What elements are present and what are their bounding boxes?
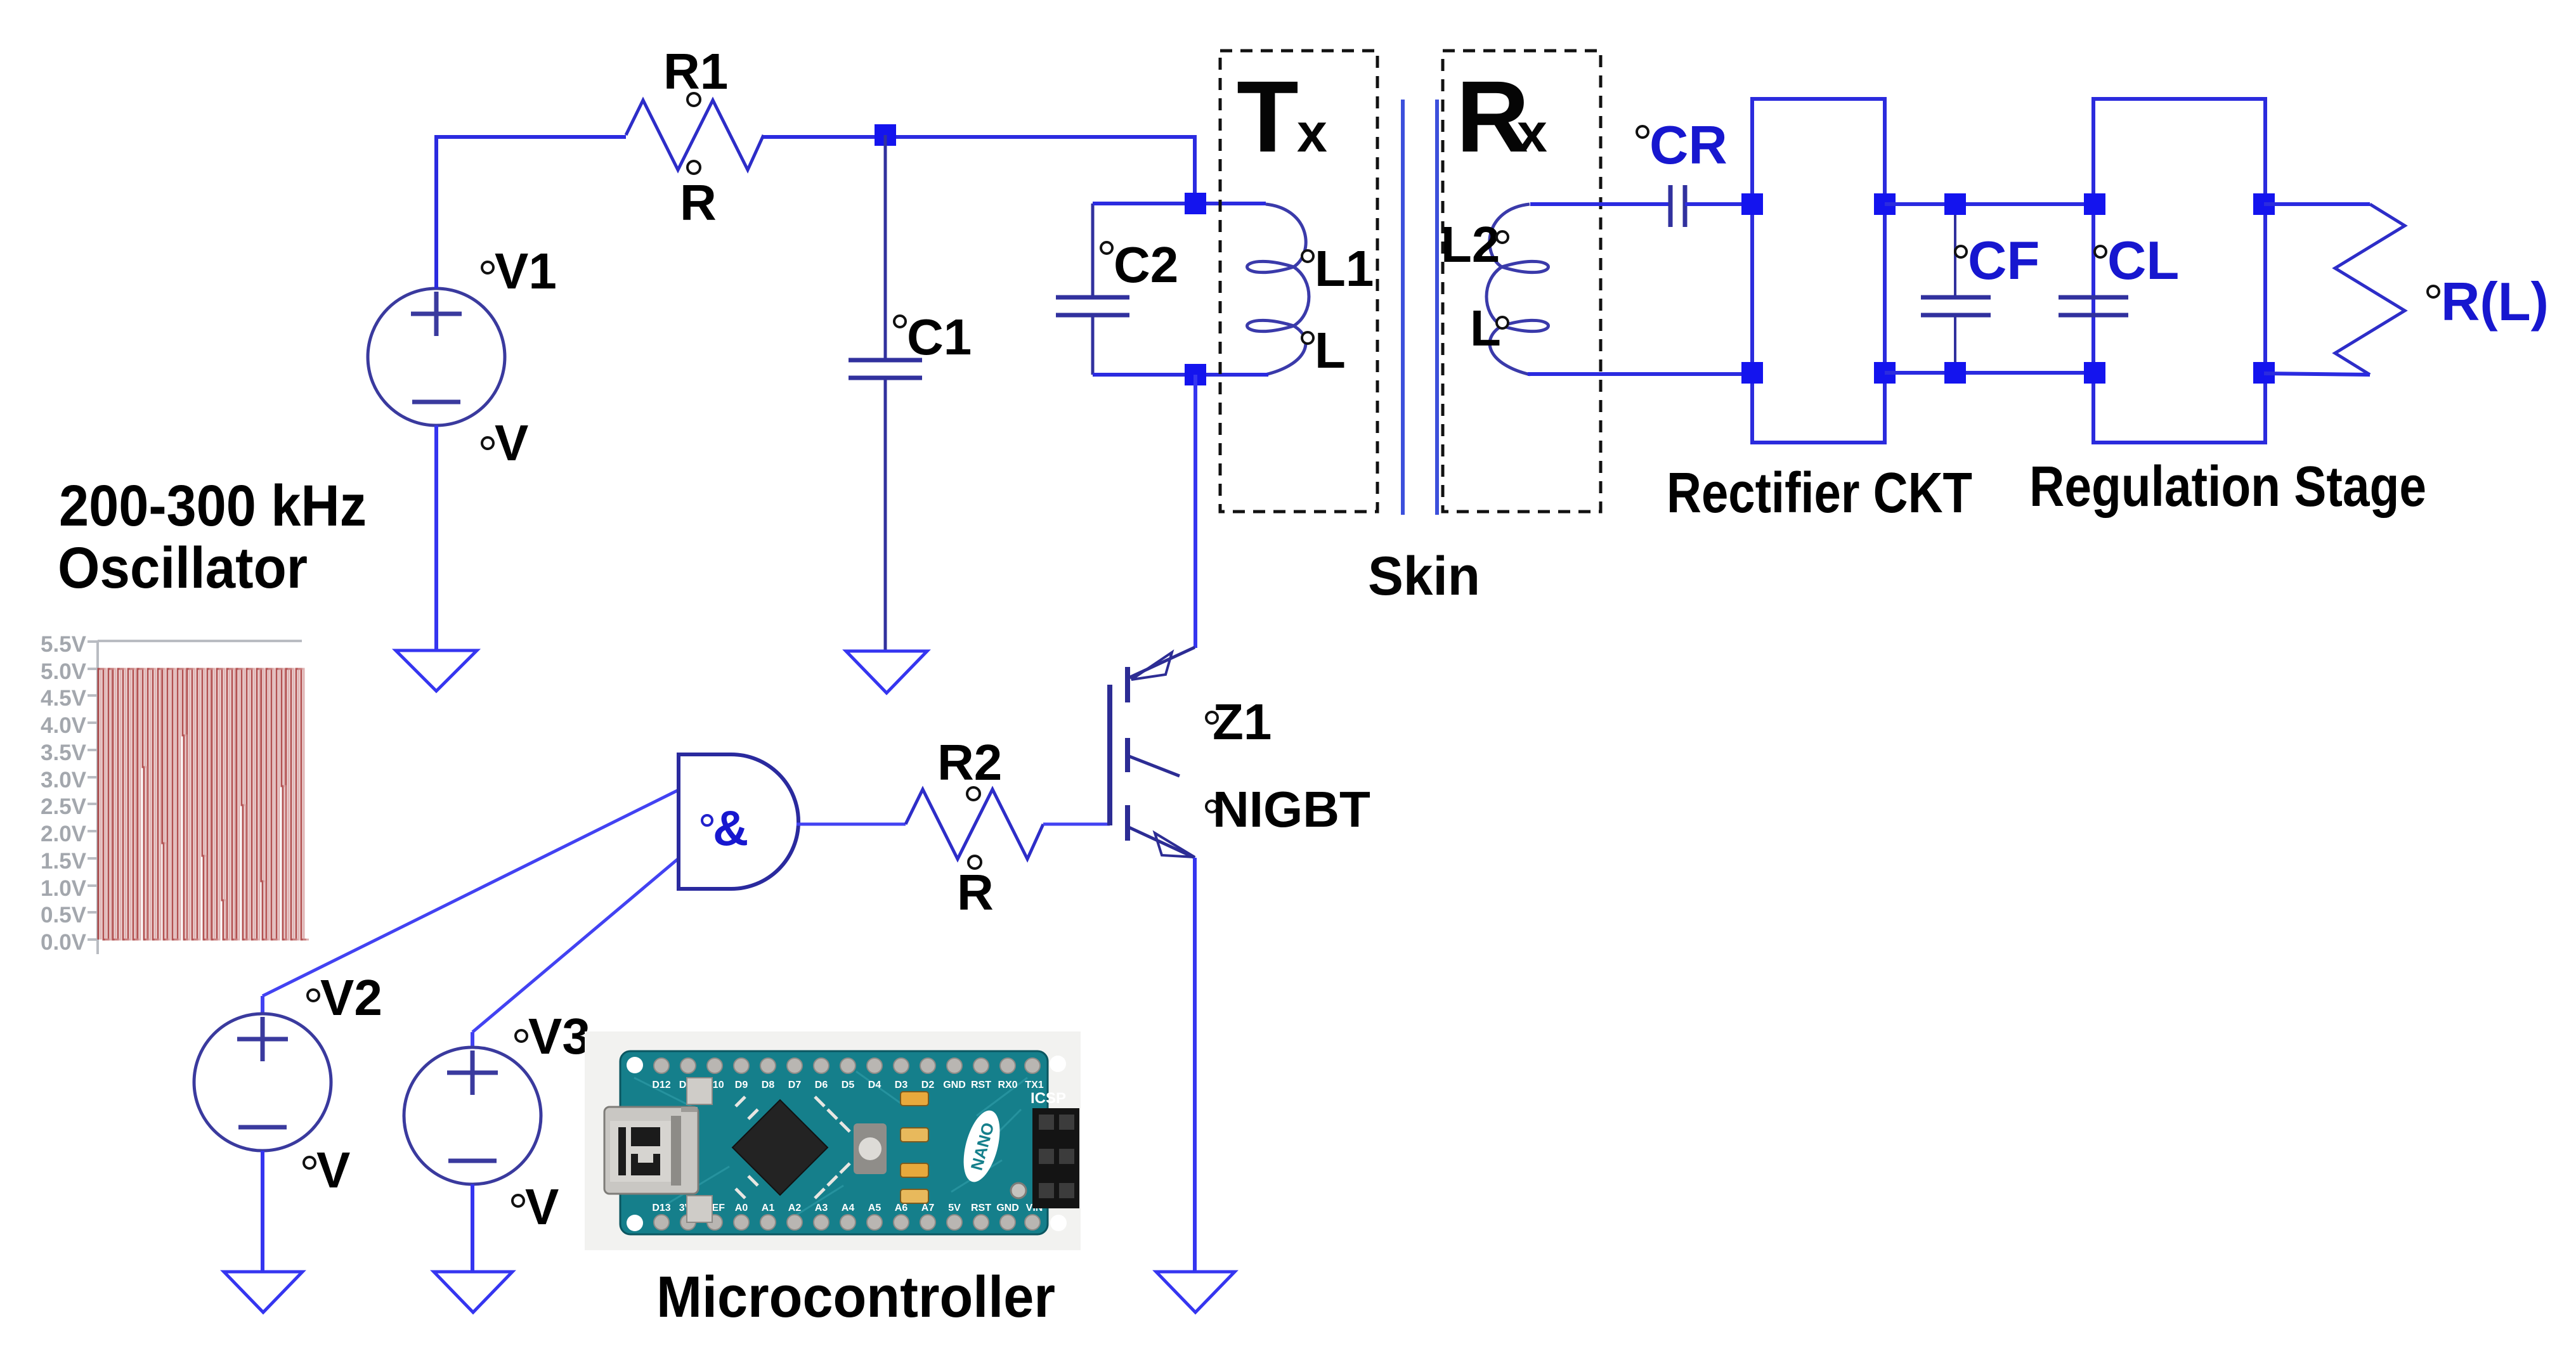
svg-text:D6: D6 [815, 1080, 828, 1090]
microcontroller top pin pads [654, 1058, 1040, 1073]
oscillator plot axis [88, 641, 302, 954]
ground (V3) [434, 1272, 512, 1312]
svg-text:2.5V: 2.5V [41, 794, 87, 819]
resistor R1 [626, 100, 764, 170]
label Z1 [1206, 694, 1272, 750]
node CF top [1944, 193, 1966, 215]
transistor Z1 collector lead [1128, 647, 1195, 678]
node CL top [2084, 193, 2105, 215]
svg-text:T: T [1237, 60, 1299, 173]
node rectifier in top [1741, 193, 1763, 215]
label R(L) [2428, 272, 2549, 332]
svg-text:Microcontroller: Microcontroller [656, 1265, 1055, 1329]
svg-text:D12: D12 [652, 1080, 670, 1090]
resistor R2 [906, 789, 1043, 859]
capacitor C2 [1056, 204, 1129, 375]
label R1 [663, 43, 728, 106]
wire V1 top stub [434, 135, 438, 288]
svg-text:5.5V: 5.5V [41, 632, 87, 657]
voltage source V3 [404, 1032, 541, 1184]
svg-text:V1: V1 [495, 243, 557, 299]
label L2 [1441, 216, 1508, 273]
oscillator axis labels [41, 632, 87, 955]
transistor Z1 emitter lead [1128, 827, 1195, 858]
svg-text:D7: D7 [788, 1080, 802, 1090]
oscillator waveform trace [98, 669, 306, 940]
node rectifier out bottom [1874, 362, 1896, 384]
label C1 [894, 309, 972, 365]
svg-text:RST: RST [971, 1080, 991, 1090]
svg-text:D5: D5 [842, 1080, 855, 1090]
svg-text:CR: CR [1649, 115, 1727, 176]
transistor Z1 collector arrow [1131, 652, 1172, 680]
ground (V1) [396, 650, 477, 691]
wire AND output to R2 [797, 823, 906, 826]
svg-text:D4: D4 [868, 1080, 881, 1090]
svg-text:0.0V: 0.0V [41, 930, 87, 955]
resistor R(L) [2335, 204, 2405, 375]
voltage source V1 [368, 288, 505, 425]
svg-text:x: x [1297, 103, 1327, 164]
node regulation out bottom [2253, 362, 2275, 384]
svg-text:A6: A6 [895, 1203, 908, 1213]
wire V3 bottom stub [471, 1184, 474, 1272]
wire L2 bottom to rectifier [1528, 372, 1752, 376]
microcontroller NANO oval [957, 1107, 1006, 1186]
value label V (V3) [512, 1179, 559, 1235]
oscillator waveform light fill [101, 669, 309, 940]
wire CR to rectifier [1685, 202, 1752, 206]
svg-text:TX1: TX1 [1025, 1080, 1043, 1090]
label Tx [1237, 60, 1327, 173]
ground (C1) [846, 651, 927, 693]
microcontroller photo [585, 1031, 1081, 1250]
wire tank top (C2 to node B) [1093, 202, 1195, 205]
microcontroller pcb traces [634, 1071, 1027, 1217]
node rectifier in bottom [1741, 362, 1763, 384]
svg-text:Skin: Skin [1368, 546, 1480, 607]
svg-text:Regulation Stage: Regulation Stage [2029, 455, 2426, 519]
svg-text:A5: A5 [868, 1203, 881, 1213]
wire V2 to AND gate input 1 [263, 790, 679, 996]
svg-text:R1: R1 [663, 43, 728, 100]
microcontroller top pin labels [652, 1080, 1043, 1090]
node CF bottom [1944, 362, 1966, 384]
svg-text:L1: L1 [1315, 240, 1374, 297]
svg-text:L2: L2 [1441, 216, 1500, 273]
svg-text:V: V [495, 415, 528, 471]
svg-text:D3: D3 [895, 1080, 908, 1090]
svg-text:A1: A1 [762, 1203, 775, 1213]
svg-text:A3: A3 [815, 1203, 828, 1213]
wire rectifier to regulation bottom [1885, 371, 2095, 375]
node A junction [875, 124, 896, 146]
svg-text:D9: D9 [735, 1080, 748, 1090]
svg-text:D2: D2 [921, 1080, 935, 1090]
svg-text:R: R [957, 864, 994, 921]
svg-text:3.5V: 3.5V [41, 740, 87, 765]
label Rx [1456, 60, 1547, 173]
value label R (R2) [957, 856, 994, 921]
svg-text:200-300 kHz: 200-300 kHz [59, 474, 367, 538]
transistor Z1 middle stub [1128, 756, 1180, 776]
capacitor C1 [849, 135, 922, 651]
svg-text:GND: GND [996, 1203, 1019, 1213]
wire L2 top to CR [1530, 202, 1670, 206]
svg-text:R(L): R(L) [2441, 272, 2549, 332]
capacitor CR [1670, 185, 1685, 227]
svg-text:4.0V: 4.0V [41, 713, 87, 738]
svg-text:V3: V3 [528, 1008, 590, 1064]
inductor L1 [1247, 204, 1310, 375]
svg-text:C1: C1 [907, 309, 972, 365]
microcontroller reset button [854, 1123, 887, 1174]
ground (V2) [224, 1272, 302, 1312]
label CR [1637, 115, 1727, 176]
wire regulation to R(L) top [2264, 202, 2370, 206]
node regulation out top [2253, 193, 2275, 215]
svg-text:x: x [1517, 103, 1547, 164]
svg-text:1.5V: 1.5V [41, 849, 87, 874]
microcontroller bottom pin pads [654, 1215, 1040, 1230]
wire Z1 emitter down [1193, 858, 1197, 1272]
wire top left horizontal [436, 135, 626, 139]
svg-text:V: V [525, 1179, 559, 1235]
wire node B to L1 top [1195, 202, 1266, 205]
rectifier CKT box [1752, 99, 1885, 443]
svg-text:R: R [680, 174, 717, 231]
node B junction [1185, 193, 1206, 214]
regulation stage box [2093, 99, 2265, 443]
wire V1 bottom stub [434, 425, 438, 650]
ground (Z1 emitter) [1156, 1272, 1235, 1312]
svg-text:4.5V: 4.5V [41, 686, 87, 711]
value label L (L2) [1470, 300, 1508, 356]
svg-text:RX0: RX0 [998, 1080, 1017, 1090]
svg-text:V: V [316, 1142, 350, 1198]
value label R (R1) [680, 161, 717, 231]
svg-text:V2: V2 [320, 969, 382, 1026]
microcontroller chip [732, 1097, 850, 1198]
svg-text:A7: A7 [921, 1203, 935, 1213]
transistor Z1 emitter arrow [1155, 833, 1195, 857]
svg-text:L: L [1470, 300, 1501, 356]
svg-text:2.0V: 2.0V [41, 822, 87, 846]
wire R2 to Z1 gate [1043, 823, 1110, 826]
svg-text:R2: R2 [937, 734, 1002, 791]
wire rectifier to regulation top [1885, 202, 2095, 206]
microcontroller LEDs [901, 1092, 928, 1203]
label C2 [1101, 236, 1178, 293]
microcontroller ICSP header [1011, 1090, 1079, 1208]
Rx dashed box [1443, 51, 1601, 512]
microcontroller mounting holes [627, 1056, 1067, 1231]
transistor Z1 channel bar segments [1125, 667, 1130, 841]
label & (AND gate) [702, 800, 748, 856]
transformer core line left [1401, 100, 1405, 515]
wire R1 to node A [764, 135, 885, 139]
svg-text:1.0V: 1.0V [41, 876, 87, 901]
svg-text:5.0V: 5.0V [41, 659, 87, 684]
svg-text:D8: D8 [762, 1080, 775, 1090]
label NIGBT [1206, 781, 1370, 837]
svg-text:&: & [713, 800, 748, 856]
svg-text:RST: RST [971, 1203, 991, 1213]
microcontroller bottom pin labels [652, 1203, 1043, 1213]
wire R(L) bottom to regulation [2264, 373, 2370, 375]
svg-text:A2: A2 [788, 1203, 802, 1213]
label V3 [516, 1008, 590, 1064]
svg-text:L: L [1315, 322, 1346, 378]
AND gate U1 [679, 754, 798, 889]
wire node C down to Z1 collector [1194, 375, 1197, 648]
wire V3 to AND gate input 2 [472, 858, 679, 1032]
value label V (V2) [304, 1142, 350, 1198]
svg-text:Z1: Z1 [1213, 694, 1272, 750]
label CL [2095, 231, 2179, 291]
microcontroller mini-USB [604, 1078, 712, 1222]
node rectifier out top [1874, 193, 1896, 215]
svg-text:CL: CL [2107, 231, 2179, 291]
label V1 [482, 243, 557, 299]
value label V (V1) [482, 415, 528, 471]
wire tank bottom (C2 to L1 bottom) [1093, 373, 1268, 377]
svg-text:A4: A4 [842, 1203, 855, 1213]
Tx dashed box [1220, 51, 1377, 512]
svg-text:A0: A0 [735, 1203, 748, 1213]
label R2 [937, 734, 1002, 800]
node C junction [1185, 364, 1206, 385]
value label L (L1) [1302, 322, 1346, 378]
svg-text:3.0V: 3.0V [41, 768, 87, 792]
svg-text:ICSP: ICSP [1031, 1090, 1066, 1107]
svg-text:CF: CF [1968, 231, 2039, 291]
label V2 [308, 969, 382, 1026]
capacitor CF [1921, 204, 1991, 373]
svg-text:C2: C2 [1114, 236, 1178, 293]
svg-text:D13: D13 [652, 1203, 670, 1213]
label CF [1955, 231, 2039, 291]
svg-text:Rectifier CKT: Rectifier CKT [1667, 462, 1972, 525]
svg-text:Oscillator: Oscillator [58, 536, 308, 600]
svg-text:0.5V: 0.5V [41, 903, 87, 928]
label L1 [1302, 240, 1374, 297]
wire V2 bottom stub [261, 1151, 264, 1272]
node CL bottom [2084, 362, 2105, 384]
svg-text:GND: GND [943, 1080, 966, 1090]
capacitor CL [2059, 297, 2128, 315]
wire node A to corner and down to node B [885, 137, 1195, 204]
inductor L2 [1486, 204, 1549, 375]
transformer core line right [1435, 100, 1439, 515]
svg-text:NIGBT: NIGBT [1213, 781, 1370, 837]
voltage source V2 [194, 996, 331, 1151]
svg-text:5V: 5V [948, 1203, 961, 1213]
transistor Z1 gate bar [1107, 685, 1112, 825]
